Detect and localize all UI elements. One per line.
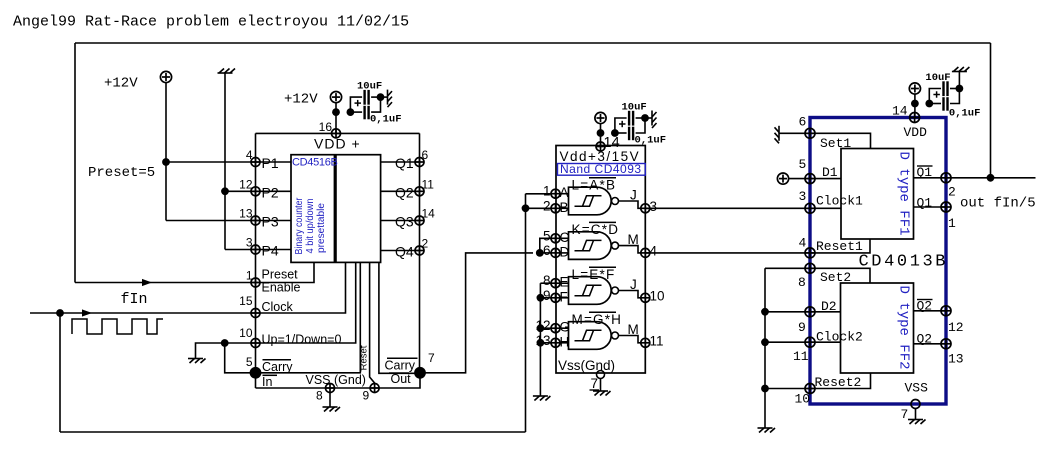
overline of equation L=A*B [589, 177, 616, 179]
wire feedback loop left edge down to preset-enable row [74, 43, 76, 283]
flip-flop block U3 navy outline [810, 118, 946, 405]
wire P3 stub [256, 220, 292, 222]
svg-text:1: 1 [543, 184, 551, 199]
capacitor C2-counter 0,1uF left plate [363, 106, 365, 120]
svg-text:Preset: Preset [262, 268, 299, 282]
pin 11 output [641, 338, 650, 347]
wire output of gate M [619, 336, 642, 343]
wire feedback loop right edge [990, 43, 992, 178]
svg-text:10: 10 [650, 288, 665, 303]
junction carry to C/D dot [536, 249, 544, 257]
svg-text:7: 7 [901, 407, 909, 422]
junction up/down ground dot [221, 339, 229, 347]
junction Reset2 rail dot [761, 385, 769, 393]
wire Set1 into ff1 [810, 133, 871, 148]
wire up/down to ground [196, 343, 256, 359]
pin 1 Preset Enable [251, 278, 260, 287]
wire +12V to P3 [166, 220, 256, 222]
svg-text:D2: D2 [821, 299, 837, 314]
svg-text:10: 10 [795, 392, 811, 407]
wire fIn rail riser to nand inputs [525, 194, 527, 432]
pin 9 Reset [370, 384, 379, 393]
svg-text:7: 7 [428, 351, 435, 365]
junction Clock2 rail dot [761, 338, 769, 346]
port ff supply terminal [909, 83, 920, 94]
wire preset-enable feedback to counter [75, 282, 256, 284]
wire P4 stub [256, 249, 292, 251]
wire carry-out from body [379, 262, 420, 373]
svg-text:B: B [560, 200, 569, 215]
pin 12 P2 [251, 187, 260, 196]
pin 3 P4 [251, 245, 260, 254]
wire Set2 from rail [765, 267, 810, 269]
svg-text:5: 5 [543, 228, 551, 243]
pin 16 VDD of counter [332, 129, 341, 138]
svg-text:5: 5 [246, 355, 253, 369]
wire D2 from rail [765, 311, 810, 313]
ground nand [652, 111, 657, 129]
svg-text:10uF: 10uF [925, 72, 950, 84]
wire Set2 into ff2 [810, 268, 870, 283]
svg-text:Carry: Carry [262, 360, 293, 374]
port +12V left terminal [160, 71, 171, 82]
nand gate U2M body [569, 322, 612, 350]
junction F dot [537, 294, 545, 302]
wire fIn input stub [30, 312, 256, 314]
counter U1 top rail [256, 132, 420, 134]
wire input stub D [560, 252, 569, 254]
wire counter lower branch [350, 111, 362, 113]
svg-text:M: M [628, 232, 639, 247]
ff1 body rectangle [841, 149, 914, 240]
svg-text:A: A [560, 185, 569, 200]
wire P2 stub [256, 190, 292, 192]
ground below ff vss [908, 420, 926, 425]
pin 3 Clock1 [805, 203, 815, 213]
wire ground to P2 [225, 190, 256, 192]
wire preset enable riser to body [256, 262, 315, 282]
wire nand port stem [600, 123, 602, 147]
svg-text:16: 16 [319, 120, 333, 134]
wire +12V to P1 [166, 161, 256, 163]
svg-text:J: J [630, 188, 637, 203]
ground below nand vss [593, 391, 611, 396]
wire ff to ground [958, 72, 960, 89]
svg-text:Q1: Q1 [917, 196, 933, 211]
node Carry In pin 5 [250, 367, 262, 379]
wire P1 stub [256, 161, 292, 163]
capacitor C2-nand 0,1uF right plate [632, 127, 634, 141]
nand gate U2M output bubble [612, 242, 619, 249]
svg-text:10uF: 10uF [357, 81, 382, 93]
svg-text:P1: P1 [262, 155, 279, 171]
svg-text:Clock1: Clock1 [816, 193, 863, 208]
svg-text:M=G*H: M=G*H [572, 312, 623, 327]
svg-text:Q3: Q3 [395, 214, 414, 230]
overline of equation L=E*F [589, 266, 616, 268]
svg-text:fIn: fIn [121, 291, 148, 308]
nand gate U2M body [569, 232, 612, 260]
svg-text:Clock2: Clock2 [816, 330, 863, 345]
svg-text:3: 3 [799, 189, 807, 204]
wire Q1bar output [946, 177, 1036, 179]
svg-text:10uF: 10uF [622, 102, 647, 114]
capacitor C-nand 10uF polarity + [619, 123, 626, 125]
wire ff lower branch [929, 103, 941, 105]
wire Q1 stub [381, 161, 420, 163]
svg-text:VSS (Gnd): VSS (Gnd) [306, 373, 366, 387]
svg-text:12: 12 [948, 320, 964, 335]
svg-text:11: 11 [650, 333, 664, 348]
wire F tie [540, 297, 551, 299]
svg-text:In: In [262, 375, 272, 389]
wire ff upper branch [929, 89, 941, 104]
wire C-D tie [540, 238, 551, 253]
pin 4 P1 [251, 158, 260, 167]
pin 13 P3 [251, 216, 260, 225]
junction ff branch dot [925, 100, 933, 108]
svg-text:+12V: +12V [104, 76, 138, 92]
wire nand lower branch [615, 132, 627, 134]
wire input stub B [560, 207, 569, 209]
wire fIn down to bottom rail [59, 313, 61, 432]
wire Q1bar stub [914, 177, 947, 179]
svg-text:9: 9 [543, 288, 551, 303]
svg-text:6: 6 [799, 115, 807, 130]
capacitor C2-ff 0,1uF right plate [946, 97, 948, 111]
pin 9 input F [551, 293, 560, 302]
wire Q2bar stub [914, 310, 947, 312]
svg-text:3: 3 [650, 199, 658, 214]
pin 5 input C [551, 234, 560, 243]
wire carry-in riser to body [256, 262, 361, 372]
junction H dot [537, 339, 545, 347]
svg-text:Q1: Q1 [917, 165, 933, 180]
wire input stub G [560, 327, 569, 329]
wire reset riser from body [370, 262, 375, 383]
wire input stub F [560, 297, 569, 299]
svg-text:Vss(Gnd): Vss(Gnd) [558, 358, 615, 373]
wire ground rail for E F G H inputs [539, 283, 541, 396]
nand blue label box [558, 164, 646, 176]
junction nand rail dot [597, 129, 605, 137]
junction ff rail dot [911, 100, 919, 108]
svg-text:C: C [560, 230, 570, 245]
svg-text:F: F [560, 289, 568, 304]
pin 10 Up/Down [251, 339, 260, 348]
junction D2 rail dot [761, 308, 769, 316]
svg-text:D type FF2: D type FF2 [896, 285, 912, 369]
wire ff 0,1uF to node [950, 89, 959, 104]
wire carry out to nand C/D inputs [420, 253, 533, 373]
wire fIn to input B [526, 207, 552, 209]
capacitor C2-counter 0,1uF right plate [367, 106, 369, 120]
wire input stub C [560, 237, 569, 239]
wire counter upper branch [350, 97, 362, 112]
svg-text:13: 13 [948, 352, 964, 367]
capacitor C-ff 10uF right plate [946, 81, 948, 96]
svg-text:Out: Out [391, 372, 412, 386]
svg-text:L=A*B: L=A*B [572, 178, 617, 193]
svg-text:8: 8 [798, 275, 806, 290]
svg-text:D1: D1 [822, 165, 838, 180]
overline of equation M=G*H [589, 311, 616, 313]
svg-text:0,1uF: 0,1uF [370, 114, 402, 126]
wire Clock2 into ff2 [810, 341, 841, 343]
wire clock riser to body [256, 262, 346, 313]
svg-text:8: 8 [543, 273, 551, 288]
wire Clock2 from rail [765, 341, 810, 343]
wire fIn to input A [526, 193, 552, 195]
wire Reset2 into ff2 [810, 373, 871, 389]
wire Clock1 into ff1 [810, 207, 841, 209]
svg-text:H: H [560, 334, 570, 349]
svg-text:CD4013B: CD4013B [859, 253, 949, 272]
svg-text:Clock: Clock [262, 300, 294, 314]
wire output of gate M [619, 246, 642, 253]
junction feedback dot [987, 174, 995, 182]
wire H tie [540, 342, 551, 344]
arrow on preset-enable wire [142, 279, 152, 286]
svg-text:Reset1: Reset1 [816, 239, 863, 254]
ground symbol for Set1 [775, 126, 780, 144]
svg-text:M: M [628, 322, 639, 337]
wire nand 0,1uF to node [636, 118, 645, 133]
junction ground P2 dot [221, 187, 229, 195]
pin 4 Reset1 [805, 248, 815, 258]
svg-text:0,1uF: 0,1uF [635, 135, 667, 147]
svg-text:1: 1 [246, 269, 253, 283]
wire Reset2 from rail [765, 388, 810, 390]
capacitor C2-nand 0,1uF left plate [628, 127, 630, 141]
svg-text:2: 2 [422, 237, 429, 251]
pin 11 Q2 [415, 187, 424, 196]
pin 1 Q1 [941, 202, 951, 212]
svg-text:out fIn/5: out fIn/5 [960, 196, 1036, 212]
ground below ff2 rail [758, 428, 776, 433]
pin 7 Vss of nand [597, 371, 605, 379]
svg-text:10: 10 [239, 326, 253, 340]
pin 6 input D [551, 248, 560, 257]
svg-text:VDD: VDD [904, 125, 928, 140]
svg-text:5: 5 [799, 157, 807, 172]
svg-text:P2: P2 [262, 184, 279, 200]
svg-text:VSS: VSS [905, 381, 929, 396]
svg-text:Set1: Set1 [820, 136, 851, 151]
wire nand to ground [645, 117, 652, 119]
svg-text:2: 2 [948, 185, 956, 200]
pin 6 Set1 [805, 128, 815, 138]
svg-text:Q4: Q4 [395, 244, 414, 260]
wire Q1 stub [914, 206, 947, 208]
capacitor C-nand 10uF right plate [632, 111, 634, 126]
capacitor C-counter 10uF polarity + [355, 102, 362, 104]
svg-text:11: 11 [422, 177, 435, 191]
wire output of gate J [619, 291, 642, 298]
wire Q2 stub [381, 190, 420, 192]
junction counter branch dot [347, 108, 355, 116]
nand block U2 outline [556, 146, 645, 374]
pin 8 input E [551, 279, 560, 288]
svg-text:3: 3 [246, 236, 253, 250]
svg-text:J: J [630, 277, 637, 292]
svg-text:D type FF1: D type FF1 [896, 151, 912, 235]
ground ff [952, 67, 970, 72]
nand gate U2J body [569, 277, 612, 305]
pin 13 input H [551, 338, 560, 347]
wire ff2 ground rail [764, 268, 766, 428]
junction G dot [537, 324, 545, 332]
pin 9 D2 [805, 307, 815, 317]
wire counter 0,1uF to node [371, 97, 380, 112]
overline of Reset label [360, 345, 362, 372]
wire counter 10uF to node [371, 96, 380, 98]
wire vss rail to pin 8 [256, 373, 421, 388]
svg-text:G: G [560, 320, 571, 335]
pin 2 Q4 [415, 246, 424, 255]
capacitor C-counter 10uF right plate [367, 90, 369, 105]
wire ff 10uF to node [950, 88, 959, 90]
wire counter to ground [381, 96, 388, 98]
wire G tie [540, 327, 551, 329]
wire nand 10uF to node [636, 117, 645, 119]
svg-text:1: 1 [948, 216, 956, 231]
svg-text:Set2: Set2 [820, 270, 851, 285]
ground below EFGH rail [533, 396, 551, 401]
svg-text:9: 9 [798, 320, 806, 335]
arrow on fIn wire [82, 309, 92, 316]
wire nand upper branch [615, 118, 627, 133]
pin 2 Q1bar [941, 173, 951, 183]
pin 3 output [641, 204, 650, 213]
svg-text:Q2: Q2 [917, 332, 933, 347]
ground stem below nand [600, 379, 602, 392]
svg-text:2: 2 [543, 198, 551, 213]
pin 15 Clock [251, 309, 260, 318]
nand gate U2J schmitt hysteresis symbol [575, 285, 602, 295]
svg-text:14: 14 [604, 135, 620, 151]
junction fIn to input B dot [522, 204, 530, 212]
svg-text:4: 4 [650, 243, 658, 258]
wire Q4 stub [381, 250, 420, 252]
wire D2 into ff2 [810, 311, 841, 313]
wire Reset1 into ff1 [810, 239, 870, 253]
junction fIn dot [56, 309, 64, 317]
nand gate U2J body [569, 187, 612, 215]
svg-text:P3: P3 [262, 214, 279, 230]
fIn square wave symbol [72, 319, 163, 334]
wire ground branch to carry-in [225, 343, 256, 373]
wire input stub E [560, 282, 569, 284]
svg-text:4: 4 [799, 236, 807, 251]
wire nand J output to Clock1 [645, 207, 810, 209]
wire ground to P4 [225, 249, 256, 251]
wire E tie [540, 282, 551, 284]
nand gate U2J schmitt hysteresis symbol [575, 196, 602, 206]
svg-text:K=C*D: K=C*D [572, 222, 620, 237]
svg-text:6: 6 [543, 243, 551, 258]
counter U1 body rectangle [291, 155, 381, 263]
svg-text:13: 13 [239, 207, 253, 221]
svg-text:8: 8 [316, 389, 323, 403]
pin 14 Vdd of nand [596, 142, 605, 151]
capacitor C-ff 10uF polarity + [933, 94, 940, 96]
nand gate U2J output bubble [612, 198, 619, 205]
pin 10 Reset2 [805, 384, 815, 394]
wire ff port stem [914, 94, 916, 118]
wire fIn bottom rail [60, 431, 526, 433]
wire D1 into ff1 [810, 178, 841, 180]
port +12V counter supply terminal [330, 92, 341, 103]
svg-text:7: 7 [591, 376, 599, 391]
wire up/down riser to body [256, 262, 356, 343]
capacitor C2-ff 0,1uF left plate [942, 97, 944, 111]
svg-text:Carry: Carry [385, 359, 416, 373]
svg-text:15: 15 [239, 294, 253, 308]
wire ground to Set1 [779, 132, 810, 134]
ground below VSS pin 8 [323, 407, 341, 412]
svg-text:P4: P4 [262, 243, 279, 259]
svg-text:12: 12 [239, 177, 253, 191]
pin 14 VDD of ff [910, 113, 920, 123]
pin 13 Q2 [941, 339, 951, 349]
pin 6 Q1 [415, 158, 424, 167]
wire +12V down to P1 row [165, 83, 167, 221]
wire Q3 stub [381, 220, 420, 222]
pin 12 input G [551, 324, 560, 333]
svg-text:presettable: presettable [315, 203, 327, 253]
svg-text:Preset=5: Preset=5 [88, 165, 155, 181]
svg-text:Q2: Q2 [395, 184, 414, 200]
svg-text:CD4516B: CD4516B [292, 157, 338, 169]
nand gate U2J output bubble [612, 287, 619, 294]
svg-text:Reset2: Reset2 [815, 375, 862, 390]
svg-text:Q1: Q1 [395, 155, 414, 171]
port nand supply terminal [595, 112, 606, 123]
ground stem below pin 8 [329, 393, 331, 408]
ground counter [388, 90, 393, 108]
svg-text:6: 6 [422, 148, 429, 162]
wire input stub H [560, 342, 569, 344]
wire input stub A [560, 193, 569, 195]
svg-text:E: E [560, 275, 569, 290]
pin 10 output [641, 293, 650, 302]
junction counter right node dot [377, 93, 385, 101]
pin 14 Q3 [415, 216, 424, 225]
port D1 terminal [777, 173, 788, 184]
counter U1 right pin rail [419, 133, 421, 372]
capacitor C-counter 10uF left plate [363, 90, 365, 105]
capacitor C-ff 10uF left plate [942, 81, 944, 96]
junction counter rail dot [332, 108, 340, 116]
wire carry to D [540, 252, 551, 254]
svg-text:11: 11 [793, 349, 809, 364]
ground top earth symbol [218, 69, 236, 74]
wire counter port stem [335, 102, 337, 133]
svg-text:Up=1/Down=0: Up=1/Down=0 [262, 333, 342, 347]
pin 7 VSS of ff [911, 400, 920, 409]
wire output of gate J [619, 201, 642, 208]
nand gate U2M schmitt hysteresis symbol [575, 330, 602, 340]
svg-text:14: 14 [892, 104, 908, 119]
svg-text:Nand CD4093: Nand CD4093 [560, 162, 642, 176]
wire nand M output to Reset1 [645, 252, 810, 254]
wire Q2 stub [914, 343, 947, 345]
pin 4 output [641, 248, 650, 257]
junction +12V P1 dot [162, 158, 170, 166]
wire ground rail down [224, 73, 226, 250]
svg-text:L=E*F: L=E*F [572, 267, 616, 282]
